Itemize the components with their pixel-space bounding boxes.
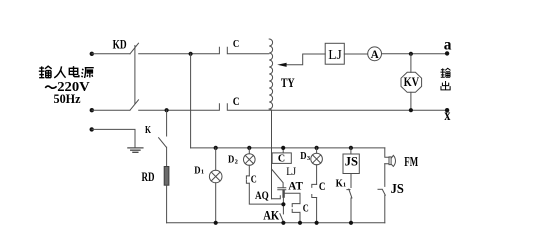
wire A to terminal a xyxy=(382,53,447,55)
node junction KV bottom xyxy=(409,108,413,112)
switch AK blade xyxy=(280,214,283,222)
wire D3 lower xyxy=(316,198,318,223)
label 输出 xyxy=(440,68,450,90)
transformer TY winding xyxy=(269,39,272,109)
lamp D1 xyxy=(209,170,222,183)
wire top line middle xyxy=(139,47,220,54)
wire K to fuse xyxy=(166,147,168,166)
svg-text:JS: JS xyxy=(345,155,358,169)
wire AQ fixed bar xyxy=(272,196,281,199)
wire KV branch top xyxy=(410,54,412,73)
svg-text:50Hz: 50Hz xyxy=(54,92,82,106)
wire FM to JS contact xyxy=(384,164,386,187)
speaker FM xyxy=(385,155,396,166)
wire C selfhold bottom xyxy=(299,212,301,222)
wire D3 to contact xyxy=(316,165,318,185)
svg-text:C: C xyxy=(233,96,240,108)
contact C under D3 xyxy=(312,184,317,197)
node bus dot K1 xyxy=(349,221,353,225)
contactor coil box C xyxy=(272,153,291,164)
wire D2 upper xyxy=(248,148,250,154)
contact C bottom right tick xyxy=(227,104,447,111)
svg-text:A: A xyxy=(371,48,380,60)
node junction control feeder xyxy=(189,52,193,56)
switch K blade xyxy=(159,138,167,148)
wire D2 branch down and right xyxy=(249,183,283,204)
meter A xyxy=(368,47,382,61)
svg-text:RD: RD xyxy=(142,170,155,184)
node bus dot D1 bottom xyxy=(214,221,218,225)
svg-text:KD: KD xyxy=(113,38,127,52)
node input terminal bottom xyxy=(90,108,94,112)
wire C coil feed xyxy=(282,148,284,153)
svg-text:1: 1 xyxy=(343,182,346,189)
svg-text:KV: KV xyxy=(404,76,420,89)
node terminal a xyxy=(445,51,449,55)
node bus dot D2 top xyxy=(247,146,251,150)
lamp D3 xyxy=(311,153,323,165)
wire C selfhold top xyxy=(284,193,300,203)
lamp D2 xyxy=(244,154,256,166)
wire control top bus xyxy=(191,147,385,149)
node input terminal top xyxy=(90,52,94,56)
switch K upper wire xyxy=(166,110,168,136)
button AT plunger xyxy=(282,191,284,197)
svg-text:LJ: LJ xyxy=(286,165,296,178)
contact C top right tick xyxy=(227,47,269,54)
wire FM branch top xyxy=(385,148,389,157)
svg-text:C: C xyxy=(251,174,257,186)
svg-text:K: K xyxy=(145,125,152,136)
wire top line left xyxy=(92,53,130,55)
node bus dot C selfhold xyxy=(298,221,302,225)
node junction K branch xyxy=(165,108,169,112)
contact C under D2 xyxy=(246,176,249,183)
wire KV branch bottom xyxy=(410,92,412,110)
wire ground branch xyxy=(92,129,135,147)
svg-text:x: x xyxy=(444,107,450,125)
label ~220V xyxy=(45,86,56,88)
wire JS contact lower xyxy=(384,195,386,223)
contact LJ blade xyxy=(272,169,284,188)
svg-text:C: C xyxy=(233,38,239,50)
svg-text:AK: AK xyxy=(263,208,280,223)
svg-text:D: D xyxy=(300,150,306,162)
svg-text:AQ: AQ xyxy=(255,190,269,202)
svg-text:D: D xyxy=(194,165,200,177)
transformer tap arrow tail xyxy=(285,54,325,65)
svg-text:FM: FM xyxy=(404,155,418,169)
node terminal x xyxy=(445,108,449,112)
node bus dot AK xyxy=(281,221,285,225)
svg-text:C: C xyxy=(278,154,285,165)
time relay box JS xyxy=(343,154,359,174)
switch KD top blade xyxy=(130,43,139,54)
switch KD bottom blade xyxy=(130,100,139,110)
wire LJ to A xyxy=(344,53,367,55)
svg-text:a: a xyxy=(444,36,452,53)
node bus dot D3 bottom xyxy=(315,221,319,225)
contact K1 blade xyxy=(349,189,352,198)
contact JS tick xyxy=(378,188,382,190)
contact K1 tick xyxy=(347,189,350,191)
node bus dot JS top xyxy=(349,146,353,150)
node bus dot D1 top xyxy=(214,146,218,150)
wire bottom line left xyxy=(92,109,130,111)
wire D3 upper xyxy=(316,148,318,153)
wire K1 lower xyxy=(350,198,352,223)
wire D1 upper xyxy=(215,148,217,170)
svg-text:D: D xyxy=(228,154,234,166)
ground symbol xyxy=(128,148,143,152)
switch KD linkage xyxy=(134,46,136,104)
fuse RD xyxy=(164,167,169,186)
label 输入电源 xyxy=(39,66,94,78)
wire JS box to K1 xyxy=(350,174,352,188)
svg-text:JS: JS xyxy=(391,181,404,197)
contact JS blade xyxy=(382,189,385,195)
wire JS box feed xyxy=(350,148,352,154)
wire control bottom bus xyxy=(167,222,385,224)
node junction KV top xyxy=(409,52,413,56)
node ground terminal xyxy=(90,127,94,131)
button AT bars xyxy=(278,188,286,190)
wire control feeder vertical xyxy=(190,54,192,148)
node bus dot C coil xyxy=(281,146,285,150)
meter KV octagon xyxy=(401,72,422,92)
node bus dot D3 top xyxy=(315,146,319,150)
svg-text:TY: TY xyxy=(281,77,295,90)
wire fuse to bottom bus xyxy=(166,185,168,223)
node junction AQ xyxy=(281,202,285,206)
svg-text:1: 1 xyxy=(201,168,204,175)
svg-text:2: 2 xyxy=(235,159,238,166)
wire AT down xyxy=(282,197,284,214)
wire transformer line down xyxy=(271,110,273,199)
contact C selfhold xyxy=(292,204,300,213)
wire bottom line middle xyxy=(139,104,220,111)
svg-text:C: C xyxy=(319,181,326,193)
wire D2 to contact xyxy=(248,165,250,176)
wire D1 lower xyxy=(215,183,217,223)
wire AK stub xyxy=(282,222,284,223)
svg-text:K: K xyxy=(336,178,343,190)
relay coil box LJ xyxy=(325,43,344,64)
svg-text:LJ: LJ xyxy=(328,47,342,62)
transformer tap arrowhead xyxy=(277,63,286,67)
svg-text:AT: AT xyxy=(288,180,303,192)
svg-text:C: C xyxy=(303,202,309,214)
